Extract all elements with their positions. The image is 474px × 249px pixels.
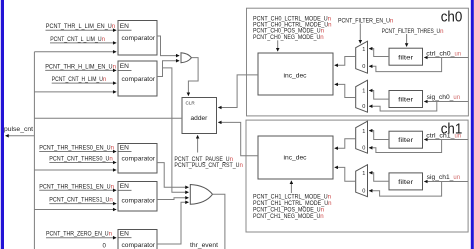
svg-text:n: n — [109, 231, 112, 238]
wire mux2 out to inc_dec ch0 — [335, 84, 356, 97]
filter F2 ch0 box — [389, 91, 423, 108]
or-gate G2 thr_event — [190, 185, 212, 205]
svg-text:PCNT_THR_L_LIM_EN_U: PCNT_THR_L_LIM_EN_U — [46, 23, 112, 30]
or-gate G1 small — [181, 53, 192, 63]
svg-text:comparator: comparator — [122, 197, 156, 204]
wire filter2 out to mux2-1 — [369, 91, 389, 100]
svg-text:un: un — [455, 51, 462, 58]
svg-text:PCNT_FILTER_EN_U: PCNT_FILTER_EN_U — [338, 17, 390, 24]
svg-text:n: n — [109, 197, 112, 204]
svg-text:PCNT_CH1_NEG_MODE_U: PCNT_CH1_NEG_MODE_U — [253, 213, 320, 220]
svg-text:n: n — [111, 145, 114, 152]
wire filter_thres down to filter1 — [406, 34, 408, 47]
inc_dec ch1 box — [258, 136, 333, 179]
svg-text:1: 1 — [362, 129, 365, 135]
ch1 box — [246, 120, 468, 232]
svg-text:1: 1 — [362, 47, 365, 53]
ch0 box — [247, 8, 469, 116]
svg-text:thr_event: thr_event — [190, 242, 218, 249]
wire ch0 inc_dec out to adder — [218, 75, 258, 108]
wire sig_ch1 bypass to mux4-0 — [369, 182, 441, 197]
blue stripe left — [1, 0, 4, 249]
svg-text:n: n — [240, 162, 243, 169]
svg-text:filter: filter — [398, 179, 414, 186]
wire EN comp5 — [46, 237, 116, 239]
mux M1 ch0 — [356, 41, 368, 73]
svg-text:sig_ch0_: sig_ch0_ — [427, 94, 454, 101]
svg-text:n: n — [113, 63, 116, 70]
wire filter_en down to mux1 — [359, 24, 361, 44]
svg-text:EN: EN — [120, 183, 129, 190]
svg-text:1: 1 — [362, 171, 365, 177]
wire pulse_cnt out — [6, 135, 35, 137]
wire value comp1 — [50, 42, 116, 44]
EN port underlines — [118, 30, 132, 238]
adder U6 box — [182, 98, 217, 134]
wire sig_ch0 in — [424, 101, 468, 103]
wire counter to comp1 — [34, 51, 116, 53]
svg-text:n: n — [112, 23, 115, 30]
mux M3 ch1 — [356, 121, 368, 153]
wire ch1 mode labels to inc_dec — [290, 181, 292, 193]
svg-text:inc_dec: inc_dec — [284, 155, 308, 162]
comparator U3 box — [118, 144, 157, 174]
svg-text:PCNT_THR_H_LIM_EN_U: PCNT_THR_H_LIM_EN_U — [45, 63, 112, 70]
wire ch0 mode labels to inc_dec — [277, 40, 279, 51]
wire value comp4 — [49, 203, 116, 205]
svg-text:un: un — [453, 174, 460, 181]
comparator U5 box — [118, 230, 157, 249]
svg-text:n: n — [320, 213, 323, 220]
wire EN comp2 — [45, 69, 116, 71]
svg-text:adder: adder — [191, 115, 209, 122]
wire ctrl_ch1 bypass to mux3-0 — [369, 140, 441, 153]
blue stripe right — [471, 0, 474, 249]
wire sig_ch1 in — [424, 181, 468, 183]
wire value comp2 — [52, 82, 117, 84]
comparator U1 box — [118, 21, 157, 56]
inc_dec ch0 box — [258, 53, 333, 95]
comparator U2 box — [118, 61, 157, 96]
wire counter bus vertical — [33, 52, 35, 249]
svg-text:ch0: ch0 — [441, 10, 463, 26]
svg-text:PCNT_CNT_THRES1_U: PCNT_CNT_THRES1_U — [49, 197, 109, 204]
svg-text:PCNT_CNT_H_LIM_U: PCNT_CNT_H_LIM_U — [52, 76, 103, 83]
wire adder out to bus — [34, 117, 182, 119]
svg-text:ch1: ch1 — [441, 121, 463, 137]
svg-text:EN: EN — [120, 23, 129, 30]
svg-text:sig_ch1_: sig_ch1_ — [427, 174, 454, 181]
svg-text:EN: EN — [120, 63, 129, 70]
svg-text:0: 0 — [362, 104, 365, 110]
svg-text:n: n — [390, 17, 393, 24]
svg-text:PCNT_CNT_L_LIM_U: PCNT_CNT_L_LIM_U — [50, 36, 101, 43]
wire comp5 out to or2 — [157, 202, 189, 244]
svg-text:n: n — [328, 200, 331, 207]
svg-text:EN: EN — [120, 144, 129, 151]
svg-text:n: n — [102, 36, 105, 43]
svg-text:inc_dec: inc_dec — [284, 72, 308, 79]
svg-text:n: n — [320, 34, 323, 41]
comparator U4 box — [118, 182, 157, 212]
wire comp2 out to or1 — [157, 61, 179, 77]
wire or2 out thr_event — [213, 194, 225, 249]
wire mux3 out to inc_dec ch1 — [335, 139, 356, 149]
wire filter4 out to mux4-1 — [369, 173, 389, 182]
mux M4 ch1 — [356, 165, 368, 197]
svg-text:pulse_cnt: pulse_cnt — [4, 126, 33, 133]
wire filter1 out to mux1-1 — [369, 49, 389, 57]
wire ch1 inc_dec out to adder — [218, 122, 258, 155]
wire EN comp1 — [46, 29, 117, 31]
wire or1 out to adder clr — [188, 58, 198, 96]
svg-text:PCNT_THR_THRES1_EN_U: PCNT_THR_THRES1_EN_U — [39, 183, 110, 190]
svg-text:comparator: comparator — [122, 242, 156, 249]
svg-text:n: n — [440, 28, 443, 35]
svg-text:filter: filter — [398, 54, 414, 61]
svg-text:comparator: comparator — [122, 35, 156, 42]
svg-text:PCNT_THR_ZERO_EN_U: PCNT_THR_ZERO_EN_U — [46, 231, 109, 238]
svg-text:n: n — [328, 22, 331, 29]
svg-text:1: 1 — [362, 89, 365, 95]
svg-text:n: n — [103, 76, 106, 83]
wire mux1 out to inc_dec ch0 — [335, 57, 356, 66]
wire sig_ch0 bypass to mux2-0 — [369, 102, 437, 112]
svg-text:PCNT_FILTER_THRES_U: PCNT_FILTER_THRES_U — [382, 28, 440, 35]
wire value comp3 — [49, 162, 116, 164]
wire comp4 out to or2 — [157, 198, 189, 200]
svg-text:n: n — [109, 156, 112, 163]
wire ctrl_ch1 in — [424, 139, 468, 141]
svg-text:0: 0 — [362, 146, 365, 152]
svg-text:filter: filter — [398, 96, 414, 103]
wire counter to comp4 — [34, 209, 116, 211]
svg-text:0: 0 — [362, 188, 365, 194]
filter F3 ch1 box — [389, 131, 423, 148]
wire comp2 branch to or2 — [163, 68, 189, 192]
mux M2 ch0 — [356, 80, 368, 112]
svg-text:ctrl_ch0_: ctrl_ch0_ — [426, 51, 455, 58]
svg-text:n: n — [111, 183, 114, 190]
svg-text:PCNT_CNT_THRES0_U: PCNT_CNT_THRES0_U — [49, 156, 109, 163]
wire EN comp3 — [39, 151, 116, 153]
svg-text:PCNT_CH0_NEG_MODE_U: PCNT_CH0_NEG_MODE_U — [253, 34, 320, 41]
wire filter3 out to mux3-1 — [369, 131, 389, 140]
wire comp1 out to or1 — [157, 36, 179, 56]
wire ctrl_ch0 bypass to mux1-0 — [369, 58, 441, 72]
wire counter to comp3 — [34, 169, 116, 171]
svg-text:PCNT_PLUS_CNT_RST_U: PCNT_PLUS_CNT_RST_U — [174, 162, 239, 169]
svg-text:comparator: comparator — [122, 76, 156, 83]
wire mux4 out to inc_dec ch1 — [335, 167, 356, 181]
wire pause/rst up to adder — [197, 135, 199, 152]
filter F4 ch1 box — [389, 173, 423, 190]
svg-text:0: 0 — [362, 64, 365, 70]
svg-text:comparator: comparator — [122, 156, 156, 163]
svg-text:un: un — [453, 94, 460, 101]
svg-text:EN: EN — [120, 231, 129, 238]
wire counter to comp2 — [34, 91, 116, 93]
wire ctrl_ch0 in — [424, 57, 468, 59]
svg-text:CLR: CLR — [186, 101, 196, 106]
svg-text:PCNT_THR_THRES0_EN_U: PCNT_THR_THRES0_EN_U — [39, 145, 110, 152]
wire comp3 out to or2 — [157, 163, 189, 188]
svg-text:filter: filter — [398, 137, 414, 144]
wire EN comp4 — [39, 189, 116, 191]
filter F1 ch0 box — [389, 48, 423, 65]
